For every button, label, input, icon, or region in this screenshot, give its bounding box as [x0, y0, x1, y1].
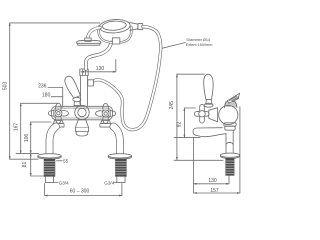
left valve escutcheon: [53, 121, 64, 128]
right flange: [108, 154, 131, 159]
side handle stem: [209, 108, 218, 122]
shower hose: [90, 27, 160, 130]
dimension 167 vertical line: [20, 103, 22, 153]
left flange: [38, 154, 61, 159]
handset head: [99, 18, 131, 34]
side union nuts: [224, 123, 236, 130]
dimension 130 front (hose reach): [81, 60, 116, 73]
svg-text:Diameter Ø14: Diameter Ø14: [187, 38, 211, 42]
extension line shank bottom y=176: [31, 175, 44, 177]
extension line y=74.2: [177, 73, 205, 75]
extension line y=108: [184, 107, 195, 109]
svg-text:180: 180: [42, 93, 51, 99]
left cross handle: [48, 103, 68, 123]
extension line bottom deck (503): [10, 158, 38, 160]
svg-text:236: 236: [38, 84, 47, 90]
side flange: [220, 153, 239, 158]
svg-text:81: 81: [22, 162, 28, 168]
center boss circles: [75, 105, 89, 119]
extension line top (503): [10, 22, 100, 24]
body bar: [52, 106, 113, 120]
dimension 92 side: [183, 108, 185, 138]
extension line y=120: [31, 121, 51, 123]
spray head: [77, 40, 101, 45]
svg-text:245: 245: [169, 101, 175, 110]
ceramic lever front: [65, 76, 81, 105]
diverter flag lever: [227, 93, 240, 103]
cradle support tube: [86, 43, 111, 70]
right leg tube: [113, 127, 120, 155]
svg-text:92: 92: [176, 122, 182, 128]
svg-text:130: 130: [208, 178, 217, 184]
left shank threaded: [44, 159, 55, 183]
side body circle: [219, 105, 238, 124]
extension line y=103: [21, 102, 58, 104]
cradle band: [99, 27, 132, 43]
dimension 130 side: [194, 176, 229, 185]
extension line flange top y=153.4: [16, 152, 39, 154]
dimension 157 side: [194, 107, 240, 194]
hose outlet pipe: [81, 76, 88, 107]
svg-text:55: 55: [63, 158, 69, 164]
svg-text:G3/4: G3/4: [59, 180, 69, 185]
side cross handle: [194, 104, 209, 123]
dimension 245 side: [176, 74, 178, 160]
hose nut: [80, 69, 88, 76]
dimension 81 vertical line: [30, 153, 32, 176]
extension line y=160 side deck: [174, 159, 223, 161]
left leg tube: [50, 127, 57, 155]
svg-text:130: 130: [96, 66, 105, 72]
dimension 503 vertical line: [9, 23, 11, 159]
svg-text:106: 106: [24, 134, 30, 143]
side spout: [193, 128, 233, 154]
dimension 106 vertical line: [30, 122, 32, 153]
svg-text:157: 157: [210, 188, 219, 194]
svg-text:60 – 300: 60 – 300: [70, 188, 90, 194]
right valve escutcheon: [100, 121, 111, 128]
cradle mount box: [112, 38, 119, 44]
side shank threaded: [226, 158, 234, 175]
leader vertical 236/180: [62, 88, 64, 108]
svg-text:Extent 1500mm: Extent 1500mm: [186, 43, 213, 47]
extension line y=137.6 spout bottom: [174, 137, 200, 139]
hose end fitting box: [88, 80, 94, 86]
handset taper and hose nut: [130, 23, 143, 31]
svg-text:503: 503: [3, 82, 9, 91]
svg-text:167: 167: [13, 123, 19, 132]
right cross handle: [96, 103, 116, 123]
diverter cap ribbed: [225, 100, 237, 108]
side ceramic lever: [204, 74, 213, 107]
spray elbow: [85, 28, 100, 42]
svg-text:G3/4: G3/4: [104, 180, 114, 185]
right shank threaded: [116, 159, 127, 183]
front spout: [75, 120, 88, 136]
side column: [0, 0, 1, 1]
dimension 60-300 bottom: [45, 184, 122, 197]
